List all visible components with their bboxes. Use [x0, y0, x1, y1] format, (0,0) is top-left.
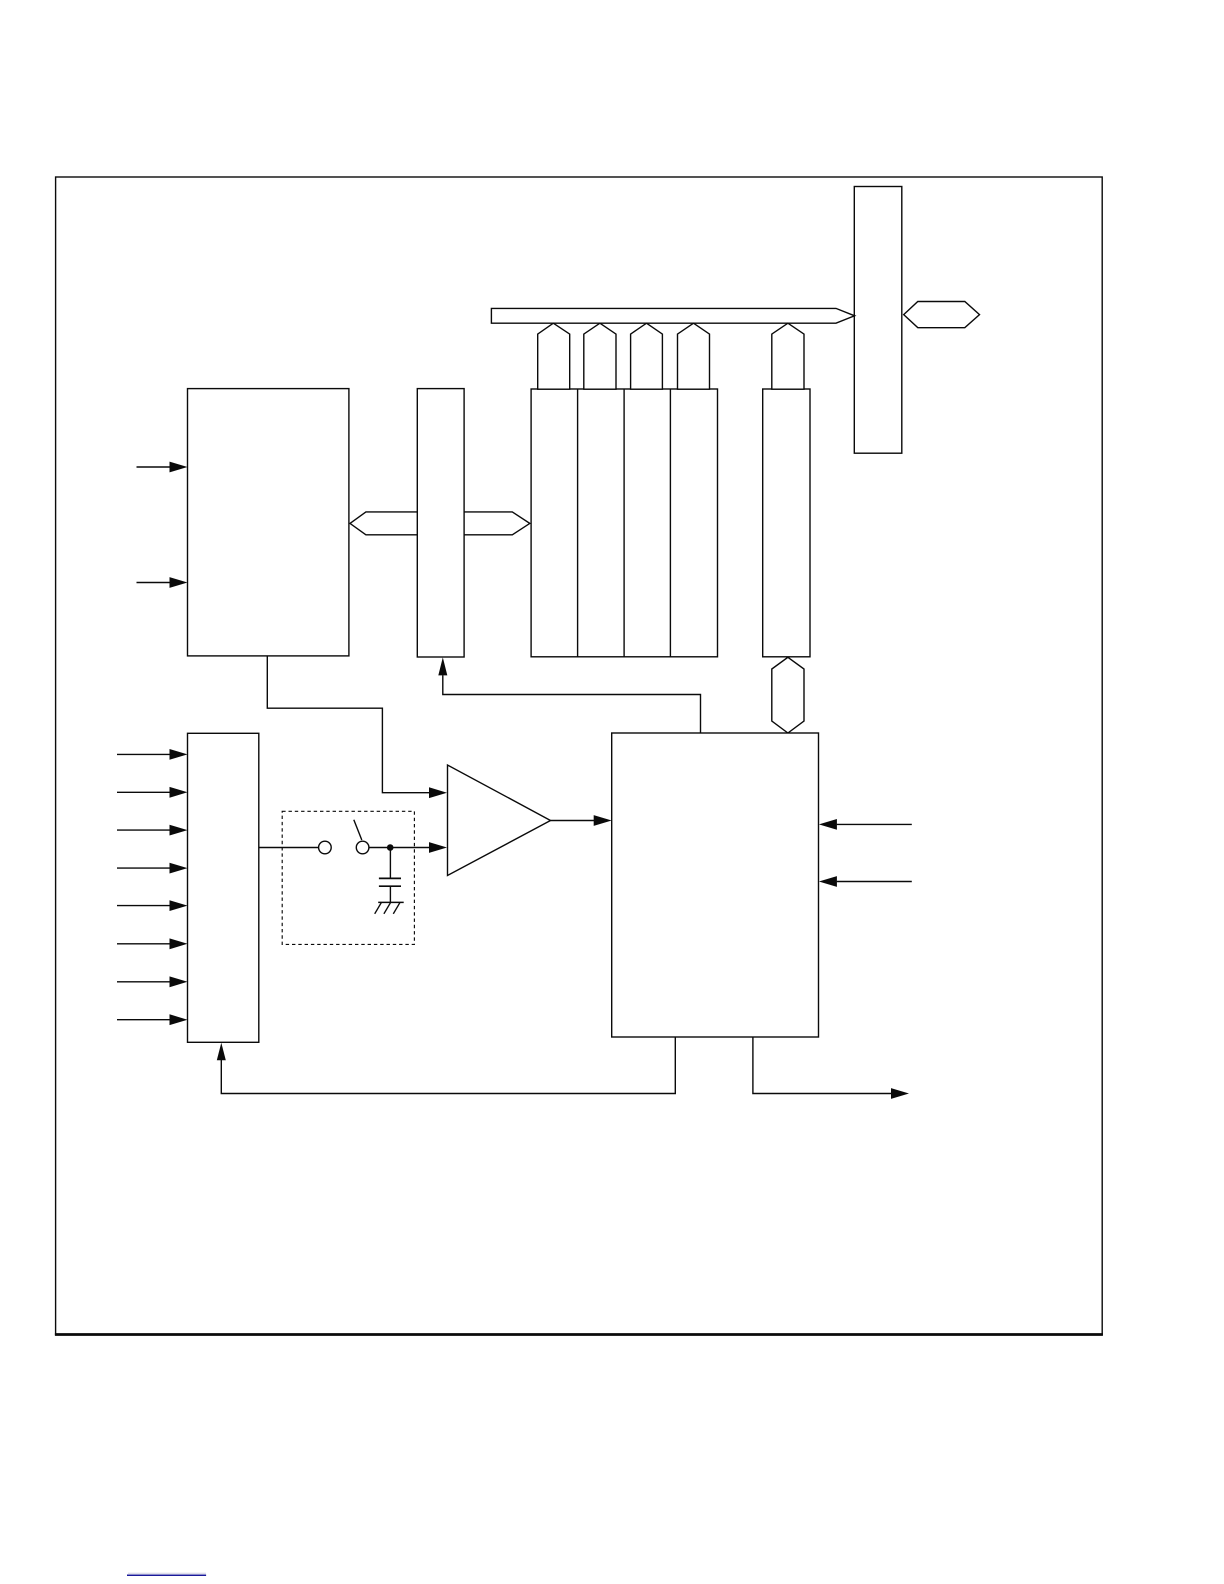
- bus entry E1 (pentagon into U3 col1): [538, 323, 570, 389]
- arrowhead EOC output right: [891, 1088, 909, 1099]
- op-amp U8: comparator triangle: [448, 765, 551, 876]
- wire: switch to comparator lower input: [369, 847, 429, 849]
- block U6: ADC control / output logic (large lower box): [612, 733, 819, 1037]
- switch contact circle 1: [319, 841, 332, 854]
- block U3: switch tree / ladder columns (4 columns): [531, 389, 717, 657]
- mux input arrow 7: [117, 981, 170, 983]
- wire: ADC bottom feedback to mux address: [221, 1037, 675, 1094]
- junction dot: [387, 844, 394, 851]
- bus entry E3 (pentagon into U3 col3): [631, 323, 663, 389]
- hyperlink underline (footer): [127, 1574, 206, 1576]
- wire: U1 bottom to comparator upper input: [267, 656, 429, 793]
- capacitor C1 bottom plate: [379, 885, 401, 887]
- switch contact circle 2: [356, 841, 369, 854]
- block U7: 8-channel analog multiplexer (tall left box): [188, 733, 259, 1042]
- bus entry E5 (pentagon into U4): [772, 323, 804, 389]
- ground slash 2: [384, 903, 391, 914]
- figure frame: [56, 177, 1103, 1335]
- arrowhead into ADC right side 1: [819, 819, 837, 830]
- arrowhead up into SAR bottom: [438, 657, 447, 675]
- ground slash 3: [393, 903, 400, 914]
- bus B1: output data bus (pencil shape, points right into U5): [491, 308, 854, 323]
- mux input arrow 5: [117, 905, 170, 907]
- U3 column divider 3: [669, 389, 671, 657]
- bus stub B2: 8-bit output port (hexagon right of U5): [904, 302, 980, 328]
- arrowhead into ADC right side 2: [819, 876, 837, 887]
- capacitor C1 lead (bottom): [389, 886, 391, 902]
- wire: ADC right control input 2: [837, 881, 912, 883]
- block U4: comparator/ladder column (separate tall box): [763, 389, 810, 657]
- mux input arrow 4: [117, 867, 170, 869]
- ground slash 1: [375, 903, 382, 914]
- bus entry E2 (pentagon into U3 col2): [584, 323, 616, 389]
- block U5: tri-state output latch buffer (top-right tall box): [854, 187, 902, 454]
- mux input arrow 2: [117, 791, 170, 793]
- dashed sample/hold boundary box: [282, 811, 414, 944]
- input arrow: U1 input 1: [137, 466, 171, 468]
- wire: ADC bottom to EOC output: [753, 1037, 891, 1094]
- mux input arrow 3: [117, 829, 170, 831]
- bus B3: vertical hexagon between U4 and ADC control block: [772, 657, 804, 733]
- bus: bidirectional SAR data bus (horizontal hexagon, passes behind SAR box): [350, 512, 530, 535]
- arrowhead into comparator lower input: [429, 842, 447, 853]
- mux input arrow 8: [117, 1019, 170, 1021]
- block U2: SAR register (narrow, on top of bus): [417, 389, 464, 657]
- ground symbol bar: [378, 901, 404, 903]
- bus entry E4 (pentagon into U3 col4): [678, 323, 710, 389]
- mux input arrow 1: [117, 753, 170, 755]
- hyperlink underline faint upper rule: [128, 1572, 206, 1574]
- arrowhead up into mux bottom: [217, 1043, 226, 1060]
- switch lever: [354, 820, 362, 840]
- capacitor C1 lead (top): [389, 848, 391, 879]
- U3 column divider 2: [623, 389, 625, 657]
- wire: ADC right control input 1: [837, 823, 912, 825]
- block U1: control and timing (top-left): [188, 389, 349, 656]
- wire: ADC top to SAR bottom: [443, 675, 701, 733]
- capacitor C1 top plate: [379, 877, 401, 879]
- mux input arrow 6: [117, 943, 170, 945]
- arrowhead into ADC block left: [594, 815, 612, 826]
- input arrow: U1 input 2: [137, 582, 171, 584]
- U3 column divider 1: [577, 389, 579, 657]
- wire: comparator output to ADC block: [551, 820, 595, 822]
- arrowhead into comparator upper input: [429, 787, 447, 798]
- frame bottom thick rule: [55, 1333, 1103, 1336]
- wire: mux output to switch: [259, 847, 319, 849]
